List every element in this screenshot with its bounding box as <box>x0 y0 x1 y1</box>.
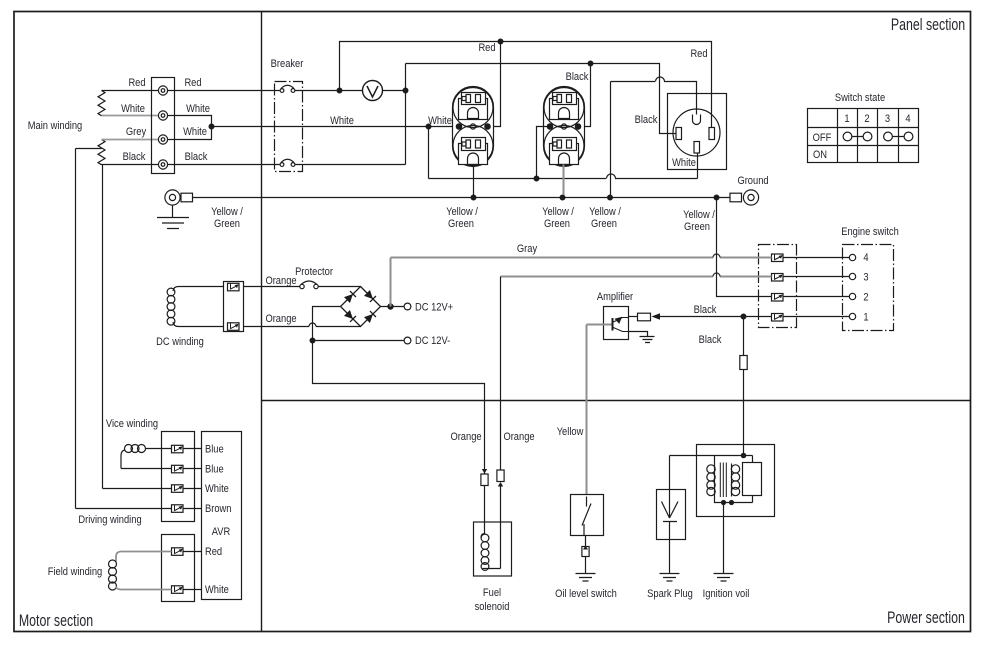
wire black winding to terminal 4 <box>102 164 159 166</box>
wire yellow green drop to P2 <box>717 198 772 297</box>
connector orange left <box>481 469 488 486</box>
svg-text:Yellow /: Yellow / <box>211 206 243 218</box>
ground symbol left <box>157 205 189 228</box>
wire V1 to avr <box>183 448 202 450</box>
svg-text:2: 2 <box>864 113 869 125</box>
connector dc bottom <box>228 323 240 331</box>
locking receptacle face <box>673 109 720 156</box>
fuel solenoid box <box>474 522 512 576</box>
ignition coil box <box>697 445 775 517</box>
svg-text:DC 12V-: DC 12V- <box>415 335 450 347</box>
node dc plus <box>388 304 393 309</box>
fuel solenoid coil <box>481 534 501 571</box>
arrow row 1 <box>652 313 661 319</box>
svg-text:Red: Red <box>184 77 201 89</box>
bridge rectifier diamond <box>341 287 381 327</box>
node ignition bottom 2 <box>730 501 734 505</box>
outlet O2 screw <box>561 124 566 129</box>
svg-text:Green: Green <box>448 218 474 230</box>
svg-text:Orange: Orange <box>450 431 481 443</box>
wire red terminal to breaker <box>168 90 280 92</box>
wire connector to solenoid right <box>500 487 502 569</box>
ground oil switch <box>576 574 596 582</box>
outlet O2 body <box>544 87 585 167</box>
wire white jog terminal 2 <box>168 116 212 127</box>
svg-text:Orange: Orange <box>265 275 296 287</box>
wire connector to ground <box>585 557 587 574</box>
svg-text:Brown: Brown <box>205 503 231 515</box>
svg-text:Yellow: Yellow <box>557 426 584 438</box>
wire white long to outlet 1 <box>212 126 457 128</box>
svg-text:Blue: Blue <box>205 444 224 456</box>
wire brown row avr <box>76 508 172 510</box>
node dc minus <box>310 338 315 343</box>
node line A outlet1 drop <box>498 39 503 44</box>
wire connector to solenoid left <box>484 486 486 534</box>
connector V3 <box>172 485 184 493</box>
wire field red row grey <box>121 551 172 553</box>
svg-text:3: 3 <box>863 272 868 284</box>
wire orange right drop <box>500 277 502 471</box>
svg-text:Vice winding: Vice winding <box>106 418 159 430</box>
ground terminal ring <box>165 190 193 205</box>
ignition bottom bus <box>715 497 753 503</box>
ground stud ring right <box>730 190 759 205</box>
node ignition bottom 1 <box>722 501 726 505</box>
outlet O1 body <box>453 87 494 167</box>
svg-text:Engine switch: Engine switch <box>841 226 899 238</box>
wire switch to connector <box>585 536 587 547</box>
engine switch terminal 3 <box>849 273 855 279</box>
wire orange top to protector <box>244 286 300 288</box>
svg-text:White: White <box>672 157 696 169</box>
wire white branch O2 <box>537 127 551 179</box>
engine switch terminal 4 <box>849 254 855 260</box>
wire spark plug to ground <box>669 522 671 574</box>
svg-text:Red: Red <box>205 546 222 558</box>
wire orange bottom to bridge <box>244 323 361 327</box>
resistor inline row 1 <box>638 313 651 321</box>
locking receptacle box <box>668 94 727 170</box>
wire vertical to brown row <box>75 149 77 509</box>
engine switch connector box <box>759 245 797 328</box>
svg-text:Power section: Power section <box>887 609 965 627</box>
node outlet O2 right terminal <box>575 124 580 129</box>
node outlet O1 left terminal <box>456 124 461 129</box>
node white jog <box>209 124 214 129</box>
outlet O2 top socket <box>550 93 579 120</box>
connector V2 <box>172 465 184 473</box>
svg-text:White: White <box>330 115 354 127</box>
wire neutral chain <box>429 174 698 179</box>
wire voltmeter to node <box>383 90 406 92</box>
wire outlet O2 ground pin grey <box>563 165 565 196</box>
node red riser <box>337 88 342 93</box>
section divider vertical (motor/panel) <box>261 12 263 632</box>
node outlet O1 right terminal <box>485 124 490 129</box>
svg-text:Orange: Orange <box>265 313 296 325</box>
field winding coil <box>109 552 121 591</box>
svg-text:Field winding: Field winding <box>48 566 103 578</box>
spark plug box <box>657 490 686 540</box>
wire gray row 4 <box>391 254 772 258</box>
svg-text:Driving winding: Driving winding <box>78 514 142 526</box>
labels left-aligned <box>205 302 453 596</box>
outlet O1 top socket <box>459 93 488 120</box>
svg-text:White: White <box>205 483 229 495</box>
switch state contacts off <box>843 132 913 141</box>
connector F1 <box>172 548 184 556</box>
breaker pole 2 <box>280 159 295 166</box>
svg-text:Spark Plug: Spark Plug <box>647 588 693 600</box>
oil level switch contact <box>582 497 591 536</box>
breaker pole 1 <box>280 85 295 92</box>
wire bridge right to terminal <box>381 306 404 308</box>
svg-text:Green: Green <box>684 221 710 233</box>
terminal dc 12v minus <box>404 337 411 344</box>
wire F2 to avr <box>183 589 202 591</box>
node bus outlet2 <box>560 195 565 200</box>
ground ignition <box>714 574 734 582</box>
node bus receptacle <box>608 195 613 200</box>
svg-text:Fuel: Fuel <box>483 587 501 599</box>
svg-text:2: 2 <box>863 292 868 304</box>
oil level switch box <box>571 495 604 536</box>
wire yellow drop <box>586 325 588 495</box>
locking receptacle slot left <box>676 128 682 140</box>
wire dc minus return <box>313 341 485 474</box>
svg-text:White: White <box>205 584 229 596</box>
wire white jog terminal 3 <box>168 127 212 140</box>
connector P3 <box>772 274 784 282</box>
wire P2 to terminal 2 <box>784 296 850 298</box>
field connector box <box>162 535 195 602</box>
engine switch terminal 1 <box>849 313 855 319</box>
ground amplifier <box>640 337 655 343</box>
connector oil switch <box>582 546 589 557</box>
connector V4 <box>172 505 184 513</box>
connector P1 <box>772 314 784 322</box>
terminal 4 <box>158 160 167 169</box>
amplifier box <box>604 307 629 340</box>
wire vice row 2 <box>121 468 172 470</box>
wire black terminal to breaker <box>168 164 280 166</box>
svg-text:Switch state: Switch state <box>835 92 886 104</box>
wire V4 to avr <box>183 508 202 510</box>
wire emitter to ground <box>629 332 648 337</box>
terminal dc 12v plus <box>404 303 411 310</box>
wire bridge left to dc minus <box>313 307 341 341</box>
engine switch box <box>843 245 894 331</box>
svg-text:Black: Black <box>694 304 718 316</box>
connector P4 <box>772 254 784 262</box>
svg-text:Ground: Ground <box>737 175 768 187</box>
ignition primary winding <box>707 456 715 497</box>
svg-text:Red: Red <box>128 77 145 89</box>
avr box <box>202 432 242 600</box>
connector P2 <box>772 294 784 302</box>
outlet O2 bottom socket <box>550 138 579 165</box>
node bus outlet1 <box>471 195 476 200</box>
wire F1 to avr <box>183 551 202 553</box>
wire yellow green bus <box>193 197 730 199</box>
node ignition feed <box>741 453 745 457</box>
wire line B black <box>406 64 677 134</box>
svg-text:Motor section: Motor section <box>19 612 93 630</box>
diode top-left <box>344 291 356 303</box>
node outlet O2 left terminal <box>547 124 552 129</box>
svg-text:1: 1 <box>863 312 868 324</box>
labels small <box>28 42 911 613</box>
svg-text:Panel section: Panel section <box>891 16 965 34</box>
ground spark plug <box>660 574 680 582</box>
terminal 1 <box>158 86 167 95</box>
svg-text:Black: Black <box>123 151 147 163</box>
fuse F1 <box>740 356 747 370</box>
wire amplifier to resistor <box>629 316 638 318</box>
protector fuse <box>300 281 318 289</box>
wire grey winding to terminal 3 <box>102 139 159 141</box>
svg-text:Orange: Orange <box>503 431 534 443</box>
node black drop <box>741 314 746 319</box>
main winding coil 1 <box>98 91 105 116</box>
wire drop line A to outlet1 <box>490 42 501 127</box>
locking receptacle slot right <box>709 128 715 140</box>
svg-text:Blue: Blue <box>205 464 224 476</box>
breaker box <box>275 82 303 172</box>
engine switch terminal 2 <box>849 293 855 299</box>
wire receptacle ground <box>611 77 697 195</box>
wire fuse to ignition coil <box>743 370 745 456</box>
svg-text:OFF: OFF <box>813 132 832 144</box>
wire ignition to ground <box>723 503 725 574</box>
svg-text:AVR: AVR <box>212 526 231 538</box>
connector orange right <box>497 470 504 487</box>
terminal strip <box>152 78 175 174</box>
svg-text:Red: Red <box>690 48 707 60</box>
wire breaker bottom to riser <box>295 164 406 166</box>
wire white winding to terminal 2 <box>102 115 159 117</box>
svg-text:1: 1 <box>844 113 849 125</box>
svg-text:Black: Black <box>185 151 209 163</box>
svg-text:DC 12V+: DC 12V+ <box>415 302 453 314</box>
svg-text:Black: Black <box>699 334 723 346</box>
svg-text:White: White <box>121 103 145 115</box>
wire P1 to terminal 1 <box>784 316 850 318</box>
svg-text:solenoid: solenoid <box>475 601 510 613</box>
locking receptacle slot top <box>693 115 701 125</box>
svg-text:Protector: Protector <box>295 266 333 278</box>
svg-text:Yellow /: Yellow / <box>589 206 621 218</box>
section divider horizontal (panel/power) <box>262 400 971 402</box>
wire drop line B to outlet2 <box>580 64 591 127</box>
diode top-right <box>364 290 376 302</box>
svg-text:White: White <box>183 126 207 138</box>
ignition secondary winding <box>731 464 739 497</box>
transistor Q1 <box>613 317 629 332</box>
wire primary feed <box>670 455 753 457</box>
svg-text:Yellow /: Yellow / <box>542 206 574 218</box>
wire center tap to vertical <box>76 148 102 150</box>
wire red winding to terminal 1 <box>102 90 159 92</box>
svg-text:3: 3 <box>885 113 890 125</box>
svg-text:4: 4 <box>863 252 868 264</box>
svg-text:Oil level switch: Oil level switch <box>555 588 617 600</box>
wire P4 to terminal 4 <box>784 257 850 259</box>
ignition core <box>720 463 726 498</box>
ignition HT cap <box>743 456 762 503</box>
wire vertical black to white row <box>102 165 104 489</box>
wire dc minus line <box>313 340 404 342</box>
svg-text:White: White <box>186 103 210 115</box>
svg-text:Ignition voil: Ignition voil <box>703 588 750 600</box>
svg-text:Black: Black <box>566 71 590 83</box>
dc winding connector box <box>224 282 244 332</box>
vice connector box <box>162 432 195 522</box>
wire riser line B <box>405 64 407 165</box>
switch state table <box>808 109 919 163</box>
main winding coil 2 <box>98 140 105 165</box>
spark plug gap <box>662 456 679 522</box>
svg-text:Gray: Gray <box>517 243 538 255</box>
wire V2 to avr <box>183 468 202 470</box>
svg-text:Green: Green <box>544 218 570 230</box>
vice winding coil <box>121 445 172 469</box>
locking receptacle slot bottom <box>694 142 700 154</box>
wire gray row 3 <box>501 273 772 277</box>
svg-text:ON: ON <box>813 149 827 161</box>
wire protector to bridge <box>318 286 360 288</box>
svg-text:Green: Green <box>214 218 240 230</box>
outlet O1 bottom socket <box>459 138 488 165</box>
node neutral chain O2 <box>534 176 539 181</box>
node voltmeter out <box>403 88 408 93</box>
wire V3 to avr <box>183 488 202 490</box>
node line B outlet2 drop <box>588 61 593 66</box>
svg-text:4: 4 <box>905 113 910 125</box>
svg-text:Green: Green <box>591 218 617 230</box>
wire outlet O1 ground pin <box>473 165 475 196</box>
outlet O1 screw <box>470 124 475 129</box>
wire black drop to fuse <box>743 317 745 356</box>
svg-text:White: White <box>428 115 452 127</box>
connector dc top <box>228 283 240 291</box>
wire white branch down O1 <box>428 127 430 179</box>
wire breaker to voltmeter <box>295 90 363 92</box>
diode bottom-left <box>344 310 356 322</box>
wire gray riser <box>390 258 392 307</box>
node white branch O1 <box>426 124 431 129</box>
connector F2 <box>172 586 184 594</box>
diode bottom-right <box>364 311 376 323</box>
voltmeter V1 <box>363 81 383 101</box>
wire black row 1 <box>657 316 772 318</box>
node bus ground lead <box>714 195 719 200</box>
wire base grey <box>587 324 612 326</box>
connector V1 <box>172 445 184 453</box>
svg-text:Yellow /: Yellow / <box>683 209 715 221</box>
wire receptacle neutral <box>697 153 699 179</box>
terminal 3 <box>158 135 167 144</box>
wire white row avr <box>103 488 172 490</box>
svg-text:Grey: Grey <box>126 126 147 138</box>
wire field white row grey <box>121 589 172 591</box>
svg-text:Yellow /: Yellow / <box>446 206 478 218</box>
svg-text:Main winding: Main winding <box>28 120 83 132</box>
svg-text:DC winding: DC winding <box>156 336 204 348</box>
terminal 2 <box>158 111 167 120</box>
svg-text:Red: Red <box>478 42 495 54</box>
svg-text:Breaker: Breaker <box>271 58 304 70</box>
svg-text:Black: Black <box>635 114 659 126</box>
svg-text:Amplifier: Amplifier <box>597 291 634 303</box>
wire line A red top <box>340 42 712 128</box>
dc winding coil <box>167 287 223 327</box>
wire P3 to terminal 3 <box>784 276 850 278</box>
